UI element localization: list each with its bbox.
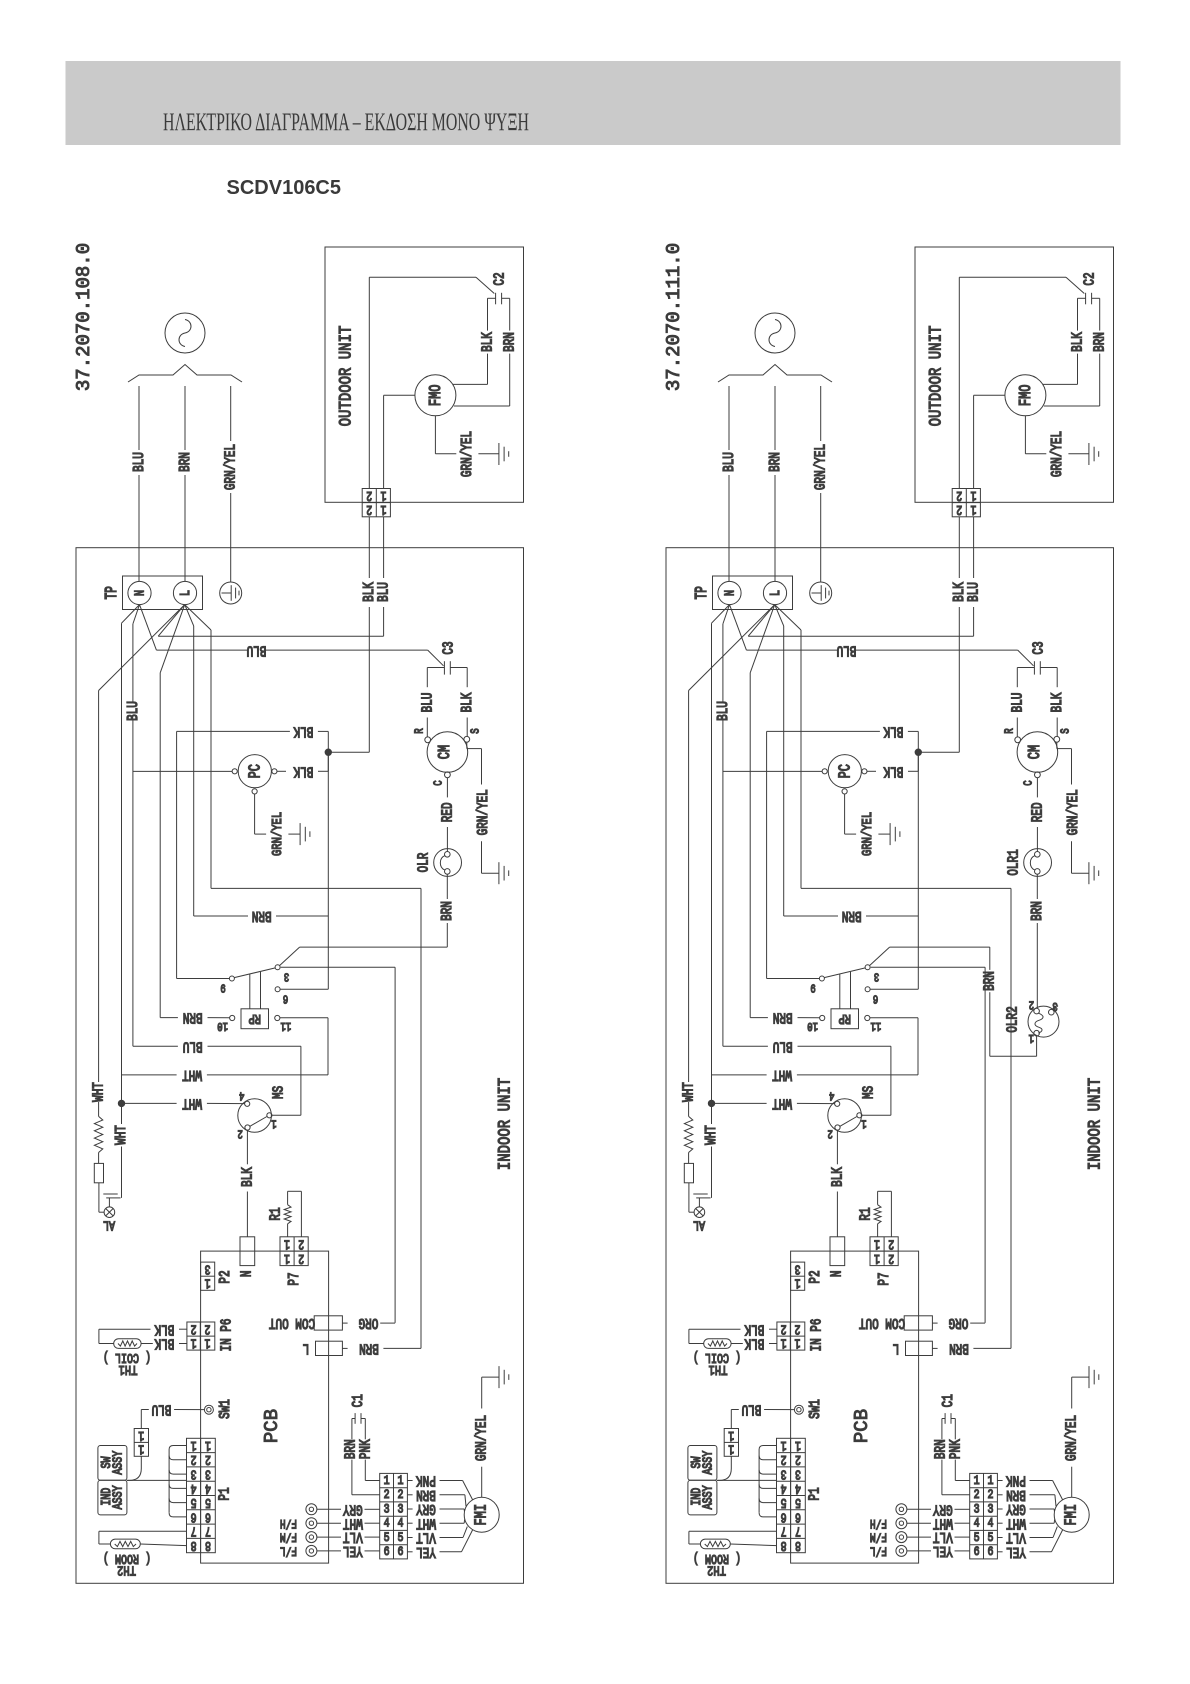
wire BLK row to junction xyxy=(767,731,919,749)
svg-text:C3: C3 xyxy=(440,641,457,654)
drawing number 37.2070.108.0 xyxy=(73,243,95,391)
wire PC to ground xyxy=(255,794,301,834)
outdoor unit box xyxy=(325,247,524,502)
motor switch MS xyxy=(828,1099,862,1133)
wire YEL to FMI connector xyxy=(907,1550,970,1552)
P1 digit 3 left xyxy=(781,1466,787,1482)
svg-text:AL: AL xyxy=(693,1217,705,1233)
svg-text:5: 5 xyxy=(398,1531,404,1546)
svg-text:COM OUT: COM OUT xyxy=(269,1315,315,1332)
svg-text:1: 1 xyxy=(381,502,387,518)
wire TH1 upper xyxy=(99,1329,187,1343)
svg-text:R1: R1 xyxy=(267,1207,284,1220)
label SW xyxy=(99,1456,115,1469)
svg-text:ASSY: ASSY xyxy=(700,1451,716,1475)
contact 9 xyxy=(819,976,824,981)
connector P1 xyxy=(777,1438,806,1552)
label WHT xyxy=(680,1082,697,1102)
svg-text:GRN/YEL: GRN/YEL xyxy=(859,812,875,856)
label GRN/YEL xyxy=(474,789,491,835)
wire contact 3 to COM OUT xyxy=(871,967,985,1323)
test point GRY xyxy=(896,1504,907,1515)
label ASSY xyxy=(110,1485,126,1509)
wire WHT row 2 to MS pin 4 xyxy=(125,1102,245,1104)
label PNK xyxy=(357,1439,374,1459)
P6 digit 1 xyxy=(191,1335,197,1351)
label 2 xyxy=(1029,997,1034,1011)
svg-text:C2: C2 xyxy=(1081,272,1098,285)
label IND xyxy=(689,1488,705,1506)
label GRN/YEL xyxy=(473,1415,490,1461)
FMI digit 1 left xyxy=(384,1474,390,1489)
svg-text:BLK: BLK xyxy=(1048,692,1065,712)
label AL xyxy=(693,1217,705,1233)
wire OLR to switch xyxy=(280,874,448,965)
label GRY xyxy=(416,1501,436,1518)
label F/L xyxy=(280,1543,297,1557)
svg-text:BLU: BLU xyxy=(247,642,267,659)
ground outdoor FMO xyxy=(1089,443,1099,465)
wire TH1 lower xyxy=(731,1343,777,1345)
svg-text:GRN/YEL: GRN/YEL xyxy=(1064,789,1081,835)
wire PC left xyxy=(133,770,232,772)
fan motor FMO xyxy=(415,375,456,416)
wire FMO to ground xyxy=(435,416,499,454)
label 3 xyxy=(1052,998,1057,1012)
wire C3 right to S xyxy=(450,668,467,737)
wire BLK terminal2 to C2 xyxy=(959,277,1084,488)
wire C3 left to R xyxy=(1017,668,1034,737)
label GRN/YEL xyxy=(1063,1415,1080,1461)
svg-text:BLU: BLU xyxy=(720,452,737,472)
indoor unit box xyxy=(666,548,1114,1584)
MS pin 4 xyxy=(835,1101,840,1106)
svg-text:6: 6 xyxy=(974,1545,980,1560)
label BLK xyxy=(239,1167,256,1187)
label WHT xyxy=(1006,1515,1026,1532)
svg-text:4: 4 xyxy=(988,1517,994,1532)
fan motor FMO xyxy=(1005,375,1046,416)
label GRN/YEL xyxy=(222,444,239,490)
drawing number 37.2070.111.0 xyxy=(663,243,685,391)
junction dot xyxy=(325,749,331,755)
label R1 xyxy=(267,1207,284,1220)
svg-text:TH1: TH1 xyxy=(119,1362,138,1378)
label L xyxy=(303,1340,310,1357)
label OLR2 xyxy=(1004,1006,1021,1032)
RP pin 10 xyxy=(230,1015,235,1020)
PC pin right xyxy=(862,769,867,774)
svg-text:10: 10 xyxy=(807,1018,818,1032)
earth symbol in terminal xyxy=(222,585,240,601)
svg-text:TH2: TH2 xyxy=(117,1562,136,1578)
CM pin S xyxy=(464,736,470,742)
label BRN xyxy=(949,1340,969,1357)
label VLT xyxy=(933,1529,953,1546)
svg-text:GRN/YEL: GRN/YEL xyxy=(1049,431,1066,477)
svg-text:BRN: BRN xyxy=(981,971,998,991)
wire junction to BLK terminal wire xyxy=(922,751,960,753)
label AL xyxy=(103,1217,115,1233)
label C3 xyxy=(440,641,457,654)
wire resistor to fuse xyxy=(98,1153,100,1164)
wire assy to P1 xyxy=(717,1479,777,1481)
P2 digit 1 xyxy=(205,1275,211,1291)
svg-text:BLK: BLK xyxy=(154,1335,174,1352)
svg-text:GRN/YEL: GRN/YEL xyxy=(222,444,239,490)
svg-text:R: R xyxy=(1004,728,1018,734)
label L xyxy=(178,590,194,596)
svg-text:BRN: BRN xyxy=(1091,332,1108,352)
svg-text:2: 2 xyxy=(1029,997,1034,1011)
P1 digit 5 left xyxy=(781,1495,787,1511)
svg-text:11: 11 xyxy=(871,1018,882,1032)
label 4 xyxy=(829,1088,834,1102)
FMI digit 6 right xyxy=(398,1545,404,1560)
label TH1 xyxy=(119,1362,138,1378)
svg-text:3: 3 xyxy=(384,1502,390,1517)
label 11 xyxy=(871,1018,882,1032)
FMI digit 2 right xyxy=(988,1488,994,1503)
P1 digit 1 right xyxy=(205,1437,211,1453)
PC pin bottom xyxy=(252,789,257,794)
wire VLT to FMI connector xyxy=(317,1536,380,1538)
svg-text:F/H: F/H xyxy=(870,1515,887,1529)
svg-text:BLK: BLK xyxy=(239,1167,256,1187)
COM OUT box xyxy=(314,1316,342,1330)
MS pin 1 xyxy=(267,1113,272,1118)
wire L to BRN column xyxy=(185,605,194,916)
P6 digit 2 xyxy=(781,1321,787,1337)
label IN P6 xyxy=(218,1319,235,1352)
wire C3 left to R xyxy=(427,668,444,737)
FMI digit 6 left xyxy=(974,1545,980,1560)
svg-text:SCDV106C5: SCDV106C5 xyxy=(227,177,342,199)
label WHT xyxy=(182,1095,202,1112)
label OLR1 xyxy=(1005,849,1022,876)
terminal digit 2 xyxy=(956,502,962,518)
label N xyxy=(828,1270,845,1277)
svg-text:4: 4 xyxy=(974,1517,980,1532)
wire 1-1 to assy xyxy=(717,1456,731,1480)
svg-text:N: N xyxy=(132,590,148,596)
label SW xyxy=(689,1456,705,1469)
svg-text:WHT: WHT xyxy=(90,1082,107,1102)
label (COIL) xyxy=(693,1349,741,1365)
wire R1 top to P7 pin2 xyxy=(878,1191,892,1237)
label GRY xyxy=(1006,1501,1026,1518)
P1 digit 4 right xyxy=(205,1480,211,1496)
FMI digit 2 left xyxy=(974,1488,980,1503)
svg-text:WHT: WHT xyxy=(772,1066,792,1083)
label YEL xyxy=(1006,1543,1026,1560)
svg-text:ASSY: ASSY xyxy=(110,1485,126,1509)
wire BLU to SW1 xyxy=(731,1410,794,1429)
svg-text:RP: RP xyxy=(248,1010,261,1026)
svg-text:1: 1 xyxy=(728,1441,734,1457)
motor switch MS xyxy=(238,1099,272,1133)
svg-text:9: 9 xyxy=(810,980,815,994)
wire FMI to ground xyxy=(1072,1377,1089,1497)
svg-text:3: 3 xyxy=(398,1502,404,1517)
label P2 xyxy=(216,1270,233,1283)
svg-text:5: 5 xyxy=(988,1531,994,1546)
P7 digit 1 xyxy=(284,1250,290,1266)
label BLK xyxy=(883,723,903,740)
CM pin R xyxy=(425,737,431,743)
FMI digit 2 left xyxy=(384,1488,390,1503)
label L xyxy=(893,1340,900,1357)
svg-text:BLU: BLU xyxy=(375,582,392,602)
wire FMI pin 4 xyxy=(407,1520,464,1524)
svg-text:YEL: YEL xyxy=(416,1543,436,1560)
wire ORG xyxy=(932,1322,985,1324)
svg-text:6: 6 xyxy=(283,991,288,1005)
label 1 xyxy=(271,1116,276,1130)
svg-text:6: 6 xyxy=(398,1545,404,1560)
photocoupler PC xyxy=(238,755,271,788)
terminal digit 1 xyxy=(971,487,977,503)
svg-text:8: 8 xyxy=(795,1537,801,1553)
wire BLU from supply xyxy=(138,386,140,582)
svg-text:CM: CM xyxy=(1026,745,1044,759)
title ΗΛΕΚΤΡΙΚΟ ΔΙΑΓΡΑΜΜΑ xyxy=(163,109,529,136)
label BLU xyxy=(965,582,982,602)
svg-text:C: C xyxy=(433,780,447,785)
svg-text:PCB: PCB xyxy=(851,1409,873,1443)
wire BRN to L box xyxy=(211,888,421,1348)
svg-text:OLR: OLR xyxy=(415,852,432,872)
label PC xyxy=(837,764,855,778)
test point F/M xyxy=(896,1532,907,1543)
wire L long diagonal xyxy=(689,605,775,1082)
svg-text:TP: TP xyxy=(693,586,712,599)
label ORG xyxy=(948,1315,968,1332)
svg-text:1: 1 xyxy=(874,1250,880,1266)
indoor unit box xyxy=(76,548,524,1584)
svg-text:37.2070.111.0: 37.2070.111.0 xyxy=(663,243,685,391)
svg-text:ORG: ORG xyxy=(358,1315,378,1332)
svg-text:BRN: BRN xyxy=(773,1009,793,1026)
P1 digit 4 right xyxy=(795,1480,801,1496)
label 4 xyxy=(239,1088,244,1102)
relay RP box xyxy=(831,1009,859,1029)
svg-text:1: 1 xyxy=(398,1474,404,1489)
connector P1 xyxy=(187,1438,216,1552)
svg-text:S: S xyxy=(1059,728,1073,733)
label BRN xyxy=(501,332,518,352)
svg-text:TH1: TH1 xyxy=(709,1362,728,1378)
label RP xyxy=(838,1010,851,1026)
label C2 xyxy=(491,272,508,285)
svg-text:1: 1 xyxy=(284,1250,290,1266)
label PCB xyxy=(261,1409,283,1443)
svg-text:GRN/YEL: GRN/YEL xyxy=(473,1415,490,1461)
AC power source symbol xyxy=(165,313,205,353)
svg-text:P2: P2 xyxy=(216,1270,233,1283)
svg-text:OLR2: OLR2 xyxy=(1004,1006,1021,1032)
overload relay OLR2 xyxy=(1028,1006,1059,1038)
label VLT xyxy=(416,1529,436,1546)
svg-text:FMO: FMO xyxy=(428,385,446,407)
svg-text:BRN: BRN xyxy=(766,452,783,472)
wire C1 right PNK xyxy=(951,1419,970,1481)
svg-text:GRN/YEL: GRN/YEL xyxy=(474,789,491,835)
label FMO xyxy=(1018,385,1036,407)
svg-text:9: 9 xyxy=(220,980,225,994)
P1 digit 3 right xyxy=(795,1466,801,1482)
MS pin 1 xyxy=(857,1113,862,1118)
label 1 xyxy=(1029,1031,1034,1045)
wire MS pin 2 BLK to N xyxy=(836,1130,838,1237)
label C3 xyxy=(1030,641,1047,654)
terminal block 2-2/1-1 xyxy=(362,489,390,517)
wire BLK into indoor xyxy=(368,517,370,752)
wire link BLK row to PC row xyxy=(766,731,768,771)
label BLU xyxy=(247,642,267,659)
fuse box xyxy=(684,1163,693,1182)
IND ASSY box xyxy=(688,1480,717,1515)
PCB box xyxy=(791,1251,919,1563)
overload relay OLR xyxy=(434,849,462,877)
svg-text:ΗΛΕΚΤΡΙΚΟ ΔΙΑΓΡΑΜΜΑ – ΕΚΔΟΣΗ Μ: ΗΛΕΚΤΡΙΚΟ ΔΙΑΓΡΑΜΜΑ – ΕΚΔΟΣΗ ΜΟΝΟ ΨΥΞΗ xyxy=(163,109,529,136)
label FMI xyxy=(1063,1504,1081,1526)
label BRN xyxy=(1091,332,1108,352)
capacitor C3 xyxy=(444,661,450,674)
CM pin C xyxy=(1035,772,1041,778)
label TH1 xyxy=(709,1362,728,1378)
FMI digit 6 right xyxy=(988,1545,994,1560)
svg-text:BLU: BLU xyxy=(1009,693,1026,713)
svg-text:WHT: WHT xyxy=(772,1095,792,1112)
MS blade 2-1 xyxy=(840,1117,857,1127)
wire ORG xyxy=(342,1322,395,1324)
thermistor TH1 xyxy=(114,1339,141,1349)
label YEL xyxy=(343,1542,363,1559)
label BLK xyxy=(829,1167,846,1187)
svg-text:3: 3 xyxy=(974,1502,980,1517)
connector 1-1 xyxy=(724,1429,738,1457)
svg-text:PC: PC xyxy=(247,764,265,778)
wire to contact 9 xyxy=(767,771,820,978)
FMI digit 3 left xyxy=(974,1502,980,1517)
label OUTDOOR UNIT xyxy=(336,326,356,427)
label P2 xyxy=(806,1270,823,1283)
svg-text:BLU: BLU xyxy=(965,582,982,602)
connector 1-1 xyxy=(134,1429,148,1457)
wire BLU into indoor xyxy=(158,517,383,636)
FMI digit 4 left xyxy=(384,1517,390,1532)
wire L to BRN column 2 xyxy=(185,605,211,889)
P7 digit 1 xyxy=(284,1236,290,1252)
svg-text:BLK: BLK xyxy=(293,763,313,780)
relay RP box xyxy=(241,1009,269,1029)
P1 digit 6 right xyxy=(795,1509,801,1525)
svg-text:BRN: BRN xyxy=(501,332,518,352)
connector N box xyxy=(240,1237,255,1266)
switch SW1 xyxy=(204,1405,213,1414)
wire N to BLU column 2 xyxy=(723,605,730,1047)
svg-text:RED: RED xyxy=(1029,802,1046,822)
svg-text:2: 2 xyxy=(974,1488,980,1503)
wire 1-1 to assy xyxy=(127,1456,141,1480)
svg-text:N: N xyxy=(238,1270,255,1277)
MS blade 2-1 xyxy=(250,1117,267,1127)
svg-text:R: R xyxy=(414,728,428,734)
label GRY xyxy=(933,1501,953,1518)
wire TH1 upper xyxy=(689,1329,777,1343)
wire C2 left plate to FMO xyxy=(1043,298,1086,384)
svg-text:10: 10 xyxy=(217,1018,228,1032)
svg-text:3: 3 xyxy=(988,1502,994,1517)
label MS xyxy=(860,1086,877,1099)
label BLK xyxy=(744,1321,764,1338)
svg-text:BLK: BLK xyxy=(293,723,313,740)
P7 digit 2 xyxy=(298,1236,304,1252)
label PNK xyxy=(1006,1472,1026,1489)
svg-text:N: N xyxy=(722,590,738,596)
label BLK xyxy=(883,763,903,780)
svg-text:GRN/YEL: GRN/YEL xyxy=(269,812,285,856)
photocoupler PC xyxy=(828,755,861,788)
label RED xyxy=(439,802,456,822)
P1 digit 6 left xyxy=(781,1509,787,1525)
wire BRN row xyxy=(784,915,919,917)
svg-text:YEL: YEL xyxy=(343,1542,363,1559)
svg-text:MS: MS xyxy=(270,1086,287,1099)
wire BRN to L box xyxy=(801,888,1011,1348)
wire BRN row xyxy=(194,915,329,917)
label WHT xyxy=(933,1515,953,1532)
model SCDV106C5 xyxy=(227,177,342,199)
label WHT xyxy=(113,1125,130,1145)
label BLU xyxy=(130,452,147,472)
P7 digit 2 xyxy=(298,1250,304,1266)
wire WHT row 2 to MS pin 4 xyxy=(715,1102,835,1104)
label ASSY xyxy=(700,1451,716,1475)
label PNK xyxy=(416,1472,436,1489)
label 11 xyxy=(281,1018,292,1032)
capacitor C1 xyxy=(355,1413,361,1424)
P1 digit 5 right xyxy=(795,1495,801,1511)
switch blade 9-3 xyxy=(824,968,865,978)
svg-text:P7: P7 xyxy=(285,1272,302,1285)
svg-text:F/L: F/L xyxy=(280,1543,297,1557)
label ASSY xyxy=(700,1485,716,1509)
terminal L xyxy=(763,581,786,604)
label BLK xyxy=(154,1321,174,1338)
wire OLR2 to switch xyxy=(870,947,1037,1056)
junction dot WHT xyxy=(708,1100,714,1106)
svg-text:F/L: F/L xyxy=(870,1543,887,1557)
connector digit 1 xyxy=(728,1441,734,1457)
ground PC xyxy=(300,823,310,845)
label GRY xyxy=(343,1501,363,1518)
P2 digit 1 xyxy=(795,1275,801,1291)
svg-text:YEL: YEL xyxy=(1006,1543,1026,1560)
terminal PE circle xyxy=(220,582,242,604)
wire contact 6 xyxy=(870,755,918,989)
connector digit 1 xyxy=(728,1427,734,1443)
terminal strip TP box xyxy=(713,576,793,610)
test point F/H xyxy=(896,1518,907,1529)
label GRN/YEL xyxy=(269,812,285,856)
label 3 xyxy=(874,969,879,983)
wire contact 3 to COM OUT xyxy=(281,967,395,1323)
label IND xyxy=(99,1488,115,1506)
svg-text:C1: C1 xyxy=(349,1394,366,1407)
svg-text:2: 2 xyxy=(398,1488,404,1503)
